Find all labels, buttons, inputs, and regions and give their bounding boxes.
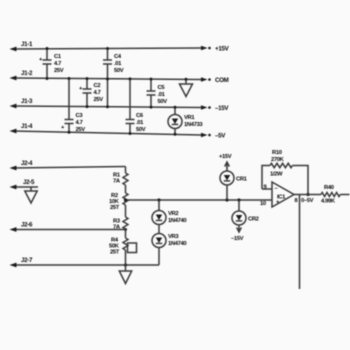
ground (bottom of divider) — [119, 265, 131, 284]
diode CR2 (-15V sink) — [231, 200, 259, 242]
capacitor C4 .01 50V — [103, 47, 124, 108]
svg-text:J1-4: J1-4 — [21, 123, 33, 130]
net label COM — [215, 77, 229, 84]
svg-text:C2: C2 — [94, 83, 101, 89]
ground (J2-5) — [25, 187, 37, 203]
svg-text:25V: 25V — [94, 97, 104, 103]
net label 0-5V — [301, 198, 314, 204]
svg-text:–5V: –5V — [215, 133, 226, 140]
svg-text:1N4740: 1N4740 — [168, 218, 186, 224]
svg-text:25T: 25T — [110, 205, 120, 211]
svg-text:+15V: +15V — [215, 46, 230, 53]
wire op-amp output — [294, 194, 321, 196]
resistor R10 270K 1/2W (feedback) — [262, 150, 310, 196]
svg-text:CR2: CR2 — [248, 217, 259, 223]
diode CR1 (+15V source) — [219, 154, 248, 200]
resistor R4 50K 25T (with trimmer box) — [109, 229, 137, 265]
svg-text:50V: 50V — [136, 127, 146, 133]
svg-text:C1: C1 — [54, 54, 62, 60]
wire inverting input — [262, 188, 272, 190]
wire rail -15V (J1-3) — [10, 104, 211, 110]
svg-text:50V: 50V — [158, 99, 168, 105]
svg-text:50V: 50V — [114, 68, 124, 74]
capacitor C5 .01 50V — [147, 78, 168, 109]
svg-text:J1-2: J1-2 — [21, 70, 33, 77]
svg-text:7A: 7A — [113, 225, 121, 231]
svg-text:4.99K: 4.99K — [321, 199, 336, 205]
svg-text:4.7: 4.7 — [94, 90, 101, 96]
svg-text:270K: 270K — [271, 157, 285, 163]
zener diode VR1 1N4733 — [168, 106, 203, 136]
svg-text:10: 10 — [260, 201, 266, 207]
svg-text:25V: 25V — [54, 68, 64, 74]
svg-text:R40: R40 — [324, 185, 334, 191]
connector pin J2-4 wire — [10, 166, 126, 171]
svg-text:C5: C5 — [158, 85, 166, 91]
capacitor C6 .01 50V (wire from COM rail crossing -15V rail) — [126, 77, 146, 135]
svg-text:J1-1: J1-1 — [21, 41, 33, 48]
node J1-4 label — [21, 123, 33, 130]
node J1-2 label — [21, 70, 33, 77]
connector pin J2-7 wire — [10, 263, 160, 268]
resistor R3 7A — [113, 205, 128, 231]
svg-text:4.7: 4.7 — [54, 61, 61, 67]
ground (COM rail) — [180, 78, 193, 97]
wire rail COM (J1-2) — [10, 76, 211, 82]
net label -5V — [215, 133, 226, 140]
node J2-4 label — [21, 160, 33, 167]
svg-text:0–5V: 0–5V — [301, 198, 314, 204]
node J2-6 label — [21, 222, 33, 229]
net label -15V — [215, 105, 229, 112]
svg-text:J2-5: J2-5 — [23, 179, 35, 186]
node J1-1 label — [21, 41, 33, 48]
wire rail -5V (J1-4) — [10, 129, 211, 138]
svg-text:C4: C4 — [114, 54, 122, 60]
resistor R1 7A — [113, 167, 128, 186]
node J2-7 label — [21, 257, 33, 264]
svg-text:+15V: +15V — [219, 154, 232, 160]
wire output drop — [299, 195, 301, 290]
svg-text:1N4733: 1N4733 — [184, 122, 203, 128]
svg-text:.01: .01 — [114, 61, 122, 67]
svg-text:CR1: CR1 — [236, 177, 248, 183]
capacitor C3 4.7 25V (wire from COM rail crossing -15V rail) — [61, 77, 85, 134]
svg-text:7A: 7A — [113, 179, 121, 185]
svg-text:.01: .01 — [158, 92, 166, 98]
node J1-3 label — [21, 98, 33, 105]
resistor R2 10K 25T — [109, 185, 128, 211]
svg-text:1/2W: 1/2W — [270, 172, 283, 178]
svg-text:–15V: –15V — [231, 236, 244, 242]
resistor R40 4.99K — [321, 185, 350, 205]
svg-text:J2-7: J2-7 — [21, 257, 33, 264]
svg-text:J2-6: J2-6 — [21, 222, 33, 229]
svg-text:25V: 25V — [76, 127, 86, 133]
svg-text:J1-3: J1-3 — [21, 98, 33, 105]
capacitor C2 4.7 25V — [79, 77, 103, 108]
svg-text:VR3: VR3 — [168, 234, 179, 240]
zener diode VR3 1N4740 — [152, 225, 186, 266]
svg-text:4.7: 4.7 — [76, 120, 83, 126]
svg-text:C3: C3 — [76, 113, 84, 119]
node J2-5 label — [23, 179, 35, 186]
net label +15V — [215, 46, 230, 53]
svg-text:IC1: IC1 — [277, 195, 286, 201]
op-amp IC1 — [260, 182, 299, 207]
svg-text:.01: .01 — [136, 120, 144, 126]
wire main signal line — [124, 198, 272, 201]
svg-text:J2-4: J2-4 — [21, 160, 33, 167]
zener diode VR2 1N4740 — [152, 200, 186, 225]
svg-text:1N4740: 1N4740 — [168, 241, 186, 247]
connector pin J2-5 wire — [10, 185, 39, 190]
svg-text:VR1: VR1 — [184, 115, 195, 121]
svg-text:VR2: VR2 — [168, 211, 178, 217]
svg-text:C6: C6 — [136, 113, 144, 119]
svg-text:COM: COM — [215, 77, 229, 84]
connector pin J2-6 wire — [10, 227, 128, 232]
svg-text:R10: R10 — [272, 150, 282, 156]
svg-text:–15V: –15V — [215, 105, 229, 112]
svg-text:25T: 25T — [110, 250, 120, 256]
capacitor C1 4.7 25V — [39, 47, 64, 80]
wire rail +15V (J1-1) — [10, 46, 211, 52]
